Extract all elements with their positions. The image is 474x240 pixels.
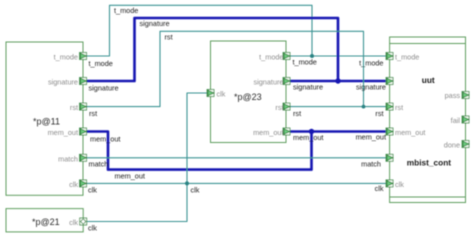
- svg-text:rst: rst: [70, 103, 78, 112]
- junction t_mode node: [310, 54, 314, 58]
- port p@11.match: [80, 154, 87, 161]
- svg-text:pass: pass: [445, 91, 461, 100]
- net label mem_out at uut: [356, 133, 386, 142]
- svg-text:match: match: [58, 154, 78, 163]
- port uut.clk: [386, 180, 393, 187]
- net label clk at uut: [375, 184, 384, 193]
- net label match at uut: [361, 160, 381, 169]
- net label rst at uut: [375, 109, 383, 118]
- port p@21.clk: [80, 218, 87, 225]
- junction signature node: [335, 78, 340, 83]
- pin label p@11.clk: [69, 180, 78, 189]
- pin label uut.clk: [395, 180, 404, 189]
- pin label p@23.t_mode: [259, 53, 283, 62]
- pin label p@23.clk: [217, 90, 226, 99]
- wire mem_out bus p@23 to uut: [290, 130, 386, 133]
- wire match p@11 to uut: [87, 157, 387, 159]
- instance block uut (mbist_cont): [390, 37, 466, 203]
- svg-text:t_mode: t_mode: [114, 6, 138, 15]
- pin label p@11.mem_out: [48, 128, 78, 137]
- net label clk at p@21: [88, 223, 97, 232]
- svg-text:clk: clk: [191, 185, 200, 194]
- wire clk rail p@11 to uut: [87, 182, 387, 184]
- port p@23.clk: [207, 90, 214, 97]
- svg-text:clk: clk: [88, 186, 97, 195]
- net label mem_out at p@23: [293, 133, 323, 142]
- svg-text:t_mode: t_mode: [89, 59, 113, 68]
- pin label uut.pass: [445, 91, 461, 100]
- svg-text:t_mode: t_mode: [259, 53, 283, 62]
- svg-text:mem_out: mem_out: [115, 172, 145, 181]
- port p@23.rst: [283, 103, 290, 110]
- svg-text:clk: clk: [88, 223, 97, 232]
- svg-text:clk: clk: [69, 218, 78, 227]
- instance label *p@21: [32, 217, 60, 227]
- svg-text:signature: signature: [293, 82, 323, 91]
- port p@23.signature: [283, 78, 290, 85]
- port uut.signature: [386, 78, 393, 85]
- svg-text:*p@21: *p@21: [32, 217, 60, 227]
- pin label p@11.signature: [48, 78, 78, 87]
- svg-text:t_mode: t_mode: [395, 53, 419, 62]
- net label mem_out at p@11: [90, 134, 120, 143]
- pin label p@11.rst: [70, 103, 78, 112]
- svg-text:mem_out: mem_out: [395, 128, 425, 137]
- instance block *p@21: [6, 209, 83, 232]
- svg-text:rst: rst: [165, 33, 173, 42]
- net label signature at uut: [356, 83, 386, 92]
- pin label uut.t_mode: [395, 53, 419, 62]
- port uut.t_mode: [386, 53, 393, 60]
- svg-text:t_mode: t_mode: [359, 58, 383, 67]
- port p@23.mem_out: [283, 128, 290, 135]
- port uut.done: [462, 141, 469, 148]
- svg-text:done: done: [444, 140, 460, 149]
- pin label uut.done: [444, 140, 460, 149]
- net label rst at p@11: [89, 109, 97, 118]
- svg-text:signature: signature: [356, 83, 386, 92]
- junction mem_out node: [309, 129, 314, 134]
- svg-text:mbist_cont: mbist_cont: [407, 158, 451, 168]
- svg-text:mem_out: mem_out: [90, 134, 120, 143]
- net label rst (top rail): [165, 33, 173, 42]
- port uut.match: [386, 154, 393, 161]
- svg-text:clk: clk: [375, 184, 384, 193]
- net label t_mode (top rail): [114, 6, 138, 15]
- wire rst bus p@23 to uut: [290, 106, 386, 108]
- module name mbist_cont: [407, 158, 451, 168]
- junction clk node: [185, 181, 189, 185]
- port p@23.t_mode: [283, 53, 290, 60]
- svg-text:match: match: [361, 160, 381, 169]
- net label clk at p@11: [88, 186, 97, 195]
- net label match at p@11: [89, 160, 109, 169]
- svg-text:fail: fail: [451, 116, 461, 125]
- port p@11.t_mode: [80, 53, 87, 60]
- instance block *p@23: [211, 41, 287, 143]
- svg-text:signature: signature: [89, 84, 119, 93]
- pin label uut.fail: [451, 116, 461, 125]
- pin label p@23.rst: [275, 103, 283, 112]
- svg-text:signature: signature: [253, 78, 283, 87]
- wire signature from p@11 up-and-over: [87, 18, 339, 81]
- svg-text:rst: rst: [275, 103, 283, 112]
- pin label p@11.match: [58, 154, 78, 163]
- net label rst at p@23: [293, 109, 301, 118]
- wire t_mode bus p@23 to uut: [290, 55, 386, 57]
- wire t_mode from p@11 up-and-over: [87, 5, 313, 56]
- instance label *p@11: [33, 117, 60, 127]
- wire mem_out from p@11 down-and-under: [87, 132, 312, 170]
- svg-text:mem_out: mem_out: [253, 128, 283, 137]
- svg-text:clk: clk: [217, 90, 226, 99]
- pin label p@21.clk: [69, 218, 78, 227]
- svg-text:*p@23: *p@23: [234, 92, 262, 102]
- svg-text:signature: signature: [140, 19, 170, 28]
- port uut.fail: [462, 116, 469, 123]
- junction rst node: [362, 105, 366, 109]
- pin label uut.mem_out: [395, 128, 425, 137]
- wire rst from p@11 up-and-over: [87, 31, 364, 106]
- svg-text:t_mode: t_mode: [54, 53, 78, 62]
- instance label *p@23: [234, 92, 262, 102]
- svg-text:rst: rst: [375, 109, 383, 118]
- instance name uut: [422, 75, 435, 85]
- wire clk branch to p@23 and p@21: [87, 93, 208, 222]
- svg-text:rst: rst: [293, 109, 301, 118]
- pin label uut.rst: [395, 103, 403, 112]
- wire signature bus p@23 to uut: [290, 80, 386, 83]
- net label t_mode at p@11: [89, 59, 113, 68]
- net label signature at p@11: [89, 84, 119, 93]
- svg-text:mem_out: mem_out: [293, 133, 323, 142]
- instance block *p@11: [6, 42, 83, 195]
- net label t_mode at p@23: [293, 57, 317, 66]
- svg-text:t_mode: t_mode: [293, 57, 317, 66]
- port p@11.rst: [80, 103, 87, 110]
- net label clk at junction: [191, 185, 200, 194]
- svg-text:rst: rst: [89, 109, 97, 118]
- port p@11.mem_out: [80, 128, 87, 135]
- svg-text:match: match: [89, 160, 109, 169]
- port p@11.clk: [80, 180, 87, 187]
- pin label p@23.signature: [253, 78, 283, 87]
- svg-text:uut: uut: [422, 75, 435, 85]
- port p@11.signature: [80, 78, 87, 85]
- svg-text:rst: rst: [395, 103, 403, 112]
- pin label p@11.t_mode: [54, 53, 78, 62]
- svg-text:mem_out: mem_out: [356, 133, 386, 142]
- net label signature (top rail): [140, 19, 170, 28]
- svg-text:clk: clk: [395, 180, 404, 189]
- port uut.rst: [386, 103, 393, 110]
- svg-text:*p@11: *p@11: [33, 117, 60, 127]
- port uut.pass: [462, 92, 469, 99]
- net label mem_out (lower rail): [115, 172, 145, 181]
- pin label p@23.mem_out: [253, 128, 283, 137]
- net label t_mode at uut: [359, 58, 383, 67]
- svg-text:signature: signature: [48, 78, 78, 87]
- port uut.mem_out: [386, 128, 393, 135]
- net label signature at p@23: [293, 82, 323, 91]
- svg-text:mem_out: mem_out: [48, 128, 78, 137]
- svg-text:clk: clk: [69, 180, 78, 189]
